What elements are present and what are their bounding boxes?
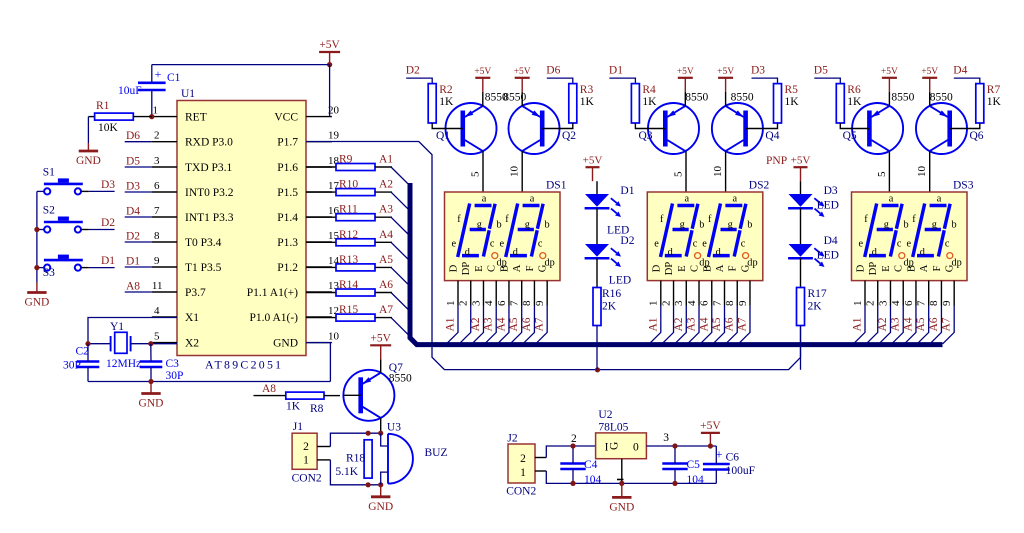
LED D3 xyxy=(789,194,813,207)
svg-text:A5: A5 xyxy=(711,317,723,331)
svg-text:c: c xyxy=(897,238,902,249)
svg-text:8550: 8550 xyxy=(503,92,526,104)
svg-text:A1: A1 xyxy=(852,317,864,331)
svg-text:8: 8 xyxy=(724,300,736,306)
wire D3 to D4 xyxy=(800,208,802,244)
svg-text:A6: A6 xyxy=(724,317,736,331)
svg-text:b: b xyxy=(497,219,502,230)
wire U2 gnd pin xyxy=(621,459,623,484)
svg-text:c: c xyxy=(693,238,698,249)
svg-text:A2: A2 xyxy=(379,179,393,191)
svg-text:T0 P3.4: T0 P3.4 xyxy=(185,237,222,249)
svg-text:9: 9 xyxy=(737,300,749,306)
svg-text:8550: 8550 xyxy=(685,92,708,104)
svg-text:D1: D1 xyxy=(620,185,634,197)
svg-text:+5V: +5V xyxy=(921,67,938,77)
transistor Q1 8550 xyxy=(446,103,497,154)
svg-text:d: d xyxy=(465,247,471,258)
svg-text:g: g xyxy=(477,219,482,230)
svg-text:GND: GND xyxy=(273,338,298,350)
switch S2 xyxy=(44,226,50,232)
LED D2 xyxy=(585,244,609,257)
wire P1.7 pin19 to LED resistors xyxy=(306,142,801,370)
svg-text:8550: 8550 xyxy=(930,92,953,104)
svg-text:b: b xyxy=(904,219,909,230)
svg-text:8550: 8550 xyxy=(731,92,754,104)
resistor R13 with net label A5 xyxy=(306,266,336,268)
svg-text:D2: D2 xyxy=(126,231,140,243)
wire J2 pin2 to U2 input xyxy=(535,457,546,459)
transistor Q7 8550 xyxy=(343,370,394,421)
svg-text:A4: A4 xyxy=(495,317,507,331)
svg-text:b: b xyxy=(699,219,704,230)
svg-text:D: D xyxy=(651,264,662,272)
transistor Q2 8550 xyxy=(509,103,560,154)
capacitor C4 104 xyxy=(560,462,585,465)
wire +5V rail to C1 and VCC xyxy=(152,64,330,66)
svg-text:GND: GND xyxy=(76,155,101,167)
svg-text:D2: D2 xyxy=(101,217,115,229)
svg-text:+: + xyxy=(155,67,162,81)
svg-text:f: f xyxy=(457,214,461,225)
svg-text:C2: C2 xyxy=(76,346,90,358)
wire/net label D3 at switch xyxy=(81,190,89,192)
svg-text:A: A xyxy=(512,264,523,272)
capacitor C6 100uF xyxy=(703,463,730,466)
svg-text:DS3: DS3 xyxy=(953,180,974,192)
svg-text:0: 0 xyxy=(633,442,639,454)
wire crystal ground rail to pin10 xyxy=(88,381,330,383)
svg-text:9: 9 xyxy=(941,300,953,306)
svg-text:3: 3 xyxy=(154,155,160,167)
svg-text:d: d xyxy=(872,247,878,258)
svg-text:c: c xyxy=(538,238,543,249)
svg-text:D: D xyxy=(856,264,867,272)
svg-text:R6: R6 xyxy=(847,84,861,96)
wire R1 to GND xyxy=(87,117,89,143)
svg-text:+5V: +5V xyxy=(583,154,603,166)
svg-text:2: 2 xyxy=(660,301,672,307)
net label D6 at U1 xyxy=(125,141,152,143)
DS1 digit 1 segments xyxy=(458,204,470,258)
ground buzzer xyxy=(380,485,382,497)
DS2 digit 1 segments xyxy=(661,204,673,258)
svg-text:D5: D5 xyxy=(814,65,828,77)
wire D4 to R17 xyxy=(800,258,802,287)
svg-text:R9: R9 xyxy=(339,154,353,166)
svg-text:6: 6 xyxy=(496,300,508,306)
svg-text:X2: X2 xyxy=(185,338,199,350)
wire J2 pin1 to ground rail xyxy=(535,470,546,472)
svg-text:+5V: +5V xyxy=(791,154,811,166)
svg-text:E: E xyxy=(474,265,485,271)
svg-text:R14: R14 xyxy=(339,279,358,291)
junction dot C3 gnd xyxy=(148,379,153,384)
svg-text:C: C xyxy=(690,265,701,272)
svg-text:2K: 2K xyxy=(808,301,823,313)
capacitor C5 104 xyxy=(662,462,687,465)
svg-text:a: a xyxy=(937,193,942,204)
svg-text:A4: A4 xyxy=(902,317,914,331)
svg-text:2: 2 xyxy=(303,441,309,453)
resistor R3 1K xyxy=(569,84,577,123)
svg-text:R4: R4 xyxy=(642,84,656,96)
svg-text:A7: A7 xyxy=(534,317,546,331)
transistor Q4 8550 xyxy=(712,103,763,154)
wire J1 pin1 to bottom rail xyxy=(317,459,330,461)
svg-text:+: + xyxy=(715,448,722,462)
svg-text:1K: 1K xyxy=(642,96,657,108)
svg-text:D3: D3 xyxy=(126,181,140,193)
svg-text:R17: R17 xyxy=(808,288,827,300)
svg-text:X1: X1 xyxy=(185,312,199,324)
svg-text:D4: D4 xyxy=(824,235,838,247)
svg-text:30P: 30P xyxy=(63,360,81,372)
svg-text:P3.7: P3.7 xyxy=(185,287,206,299)
junction dot +5V/VCC xyxy=(327,62,332,67)
svg-text:Y1: Y1 xyxy=(110,321,124,333)
svg-text:J2: J2 xyxy=(507,433,517,445)
svg-text:D: D xyxy=(449,264,460,272)
svg-text:U2: U2 xyxy=(598,409,612,421)
svg-text:P1.1 A1(+): P1.1 A1(+) xyxy=(247,287,298,299)
bus vertical and horizontal xyxy=(410,183,943,345)
svg-text:D6: D6 xyxy=(546,65,560,77)
svg-text:Q5: Q5 xyxy=(843,130,857,142)
svg-text:a: a xyxy=(482,193,487,204)
svg-text:B: B xyxy=(702,265,713,272)
ground U2 xyxy=(621,483,623,497)
svg-text:8: 8 xyxy=(154,230,160,242)
svg-text:7: 7 xyxy=(916,300,928,306)
svg-text:7: 7 xyxy=(509,300,521,306)
svg-text:P1.3: P1.3 xyxy=(277,237,298,249)
svg-text:+5V: +5V xyxy=(319,39,340,51)
svg-text:f: f xyxy=(505,214,509,225)
svg-text:10: 10 xyxy=(328,331,340,343)
svg-text:A7: A7 xyxy=(736,317,748,331)
net label D2 at U1 xyxy=(125,241,152,243)
svg-text:A1: A1 xyxy=(379,154,393,166)
DS1 digit 2 segments xyxy=(506,204,518,258)
svg-text:D4: D4 xyxy=(126,206,140,218)
svg-text:g: g xyxy=(932,219,937,230)
svg-text:J1: J1 xyxy=(293,421,303,433)
svg-text:LED: LED xyxy=(609,275,631,287)
junction dots R18 xyxy=(366,431,371,436)
svg-text:+5V: +5V xyxy=(474,67,491,77)
svg-text:8550: 8550 xyxy=(389,373,412,385)
svg-text:AT89C2051: AT89C2051 xyxy=(205,358,283,372)
svg-text:c: c xyxy=(490,238,495,249)
svg-text:3: 3 xyxy=(663,432,669,444)
svg-text:1: 1 xyxy=(852,301,864,307)
svg-text:a: a xyxy=(889,193,894,204)
svg-text:A3: A3 xyxy=(686,317,698,331)
LED D1 xyxy=(585,194,609,207)
resistor R8 1K xyxy=(286,392,324,399)
svg-text:f: f xyxy=(708,214,712,225)
wire collector pin 5 to display xyxy=(888,151,890,196)
svg-text:R7: R7 xyxy=(987,84,1001,96)
wire D2 to R16 xyxy=(596,258,598,287)
svg-text:R18: R18 xyxy=(346,453,365,465)
wire buzzer leads xyxy=(381,433,388,446)
resistor R18 5.1K xyxy=(364,440,372,478)
svg-text:4: 4 xyxy=(686,300,698,306)
svg-text:A3: A3 xyxy=(483,317,495,331)
svg-text:C: C xyxy=(894,265,905,272)
svg-text:G: G xyxy=(609,442,621,450)
resistor R4 1K xyxy=(631,84,639,123)
svg-text:RET: RET xyxy=(185,112,207,124)
svg-text:D3: D3 xyxy=(824,185,838,197)
svg-text:d: d xyxy=(513,247,519,258)
svg-text:DS1: DS1 xyxy=(546,180,567,192)
junction dot RET node xyxy=(149,114,154,119)
capacitor C1 10uF xyxy=(138,82,166,85)
svg-text:78L05: 78L05 xyxy=(598,421,628,433)
svg-text:4: 4 xyxy=(154,305,160,317)
U1 left pins with numbers xyxy=(152,116,177,118)
svg-text:BUZ: BUZ xyxy=(425,447,448,459)
svg-text:c: c xyxy=(945,238,950,249)
svg-text:LED: LED xyxy=(817,200,839,212)
svg-text:1K: 1K xyxy=(580,96,595,108)
svg-text:8: 8 xyxy=(928,300,940,306)
svg-text:f: f xyxy=(864,214,868,225)
svg-text:B: B xyxy=(499,265,510,272)
svg-text:104: 104 xyxy=(584,474,602,486)
svg-text:9: 9 xyxy=(534,300,546,306)
svg-text:12MHz: 12MHz xyxy=(106,358,141,370)
svg-text:C1: C1 xyxy=(167,72,181,84)
svg-text:INT0 P3.2: INT0 P3.2 xyxy=(185,187,234,199)
svg-text:5: 5 xyxy=(154,331,160,343)
LED D4 xyxy=(789,244,813,257)
svg-text:1K: 1K xyxy=(847,96,862,108)
svg-text:A7: A7 xyxy=(941,317,953,331)
svg-text:LED: LED xyxy=(817,250,839,262)
svg-text:D1: D1 xyxy=(609,65,623,77)
svg-text:e: e xyxy=(702,238,707,249)
switch S1 xyxy=(44,188,50,194)
svg-text:D1: D1 xyxy=(101,255,115,267)
svg-text:R13: R13 xyxy=(339,254,358,266)
svg-text:6: 6 xyxy=(154,180,160,192)
svg-text:E: E xyxy=(881,265,892,271)
svg-text:8550: 8550 xyxy=(891,92,914,104)
svg-text:10: 10 xyxy=(509,166,521,178)
svg-text:b: b xyxy=(952,219,957,230)
svg-text:R1: R1 xyxy=(96,100,110,112)
svg-text:2K: 2K xyxy=(602,301,617,313)
svg-text:INT1 P3.3: INT1 P3.3 xyxy=(185,212,234,224)
junction dot X2/C3 xyxy=(148,341,153,346)
svg-text:CON2: CON2 xyxy=(506,486,536,498)
svg-text:A4: A4 xyxy=(698,317,710,331)
svg-text:1: 1 xyxy=(445,301,457,307)
svg-text:Q6: Q6 xyxy=(970,130,984,142)
svg-text:7: 7 xyxy=(711,300,723,306)
svg-text:Q4: Q4 xyxy=(765,130,779,142)
svg-text:6: 6 xyxy=(699,300,711,306)
svg-text:3: 3 xyxy=(673,300,685,306)
resistor R9 with net label A1 xyxy=(306,166,336,168)
DS2 digit 2 segments xyxy=(709,204,721,258)
svg-text:d: d xyxy=(920,247,926,258)
svg-text:A2: A2 xyxy=(877,317,889,331)
crystal Y1 12MHz xyxy=(115,332,127,353)
svg-text:D5: D5 xyxy=(126,156,140,168)
wire X2 net xyxy=(131,343,177,345)
svg-text:GND: GND xyxy=(368,501,393,513)
svg-text:D2: D2 xyxy=(406,65,420,77)
wire collector pin 5 to display xyxy=(482,151,484,196)
wire collector pin 10 to display xyxy=(929,151,931,196)
svg-text:E: E xyxy=(677,265,688,271)
DS3 digit 2 segments xyxy=(913,204,925,258)
svg-text:A5: A5 xyxy=(915,317,927,331)
resistor R1 10K xyxy=(88,116,94,118)
wire collector pin 5 to display xyxy=(685,151,687,196)
svg-text:10K: 10K xyxy=(98,122,119,134)
svg-text:2: 2 xyxy=(865,301,877,307)
svg-text:19: 19 xyxy=(328,130,340,142)
capacitor C2 30P xyxy=(77,360,100,363)
ground crystal xyxy=(150,382,152,394)
svg-text:A6: A6 xyxy=(928,317,940,331)
svg-text:2: 2 xyxy=(571,433,577,445)
svg-text:+5V: +5V xyxy=(677,67,694,77)
wire X1 net xyxy=(88,318,177,344)
svg-text:R2: R2 xyxy=(439,84,453,96)
svg-text:1: 1 xyxy=(520,467,526,479)
svg-text:4: 4 xyxy=(890,300,902,306)
svg-text:GND: GND xyxy=(139,398,164,410)
IC U1 AT89C2051 body xyxy=(177,101,306,356)
svg-text:8: 8 xyxy=(521,300,533,306)
svg-text:A7: A7 xyxy=(379,304,393,316)
resistor R10 with net label A2 xyxy=(306,191,336,193)
svg-text:U1: U1 xyxy=(181,88,195,100)
svg-text:P1.5: P1.5 xyxy=(277,187,298,199)
svg-text:a: a xyxy=(685,193,690,204)
svg-text:PNP: PNP xyxy=(766,155,787,167)
svg-text:T1 P3.5: T1 P3.5 xyxy=(185,262,222,274)
svg-text:VCC: VCC xyxy=(274,112,298,124)
svg-text:A: A xyxy=(715,264,726,272)
svg-text:A2: A2 xyxy=(673,317,685,331)
capacitor C3 30P xyxy=(140,360,163,363)
svg-text:g: g xyxy=(884,219,889,230)
svg-text:R16: R16 xyxy=(602,288,621,300)
svg-text:R10: R10 xyxy=(339,179,358,191)
U1 right pins with numbers xyxy=(306,116,332,118)
wire collector pin 10 to display xyxy=(725,151,727,196)
svg-text:9: 9 xyxy=(154,255,160,267)
connector J2 CON2 xyxy=(508,444,535,483)
svg-text:DS2: DS2 xyxy=(749,180,770,192)
wire D1 to D2 xyxy=(596,208,598,244)
svg-text:RXD P3.0: RXD P3.0 xyxy=(185,137,233,149)
svg-text:+5V: +5V xyxy=(514,67,531,77)
svg-text:d: d xyxy=(716,247,722,258)
svg-text:F: F xyxy=(525,265,536,271)
svg-text:e: e xyxy=(500,238,505,249)
transistor Q6 8550 xyxy=(916,103,967,154)
resistor R6 1K xyxy=(836,84,844,123)
svg-text:A5: A5 xyxy=(379,254,393,266)
svg-text:6: 6 xyxy=(903,300,915,306)
svg-text:D2: D2 xyxy=(620,235,634,247)
svg-text:b: b xyxy=(545,219,550,230)
svg-text:1: 1 xyxy=(303,455,309,467)
svg-text:F: F xyxy=(932,265,943,271)
resistor R16 2K xyxy=(593,288,601,326)
svg-text:3: 3 xyxy=(877,300,889,306)
resistor R12 with net label A4 xyxy=(306,241,336,243)
regulator U2 78L05 xyxy=(596,433,647,459)
switch S3 xyxy=(44,265,50,271)
net label D3 at U1 xyxy=(125,191,152,193)
svg-text:R3: R3 xyxy=(580,84,594,96)
svg-text:5: 5 xyxy=(470,171,482,177)
svg-text:10: 10 xyxy=(712,166,724,178)
transistor Q5 8550 xyxy=(852,103,903,154)
svg-text:G: G xyxy=(538,264,549,272)
svg-text:2: 2 xyxy=(154,130,160,142)
svg-text:D6: D6 xyxy=(126,130,140,142)
svg-text:U3: U3 xyxy=(387,422,401,434)
svg-text:b: b xyxy=(747,219,752,230)
svg-text:C: C xyxy=(487,265,498,272)
svg-text:R11: R11 xyxy=(339,204,358,216)
svg-text:5: 5 xyxy=(673,171,685,177)
DS3 digit 1 segments xyxy=(865,204,877,258)
wire Q7 collector to buzzer node xyxy=(380,418,382,433)
svg-text:Q1: Q1 xyxy=(436,130,450,142)
resistor R14 with net label A6 xyxy=(306,292,336,294)
svg-text:A8: A8 xyxy=(126,281,140,293)
net label D4 at U1 xyxy=(125,216,152,218)
svg-text:10uF: 10uF xyxy=(118,85,142,97)
net label D5 at U1 xyxy=(125,166,152,168)
svg-text:e: e xyxy=(654,238,659,249)
junction dot R16 bottom xyxy=(595,367,600,372)
net label D1 at U1 xyxy=(125,266,152,268)
svg-text:R8: R8 xyxy=(310,403,324,415)
svg-text:P1.6: P1.6 xyxy=(277,162,298,174)
ground switches xyxy=(36,282,38,293)
svg-text:CON2: CON2 xyxy=(292,473,322,485)
svg-text:+5V: +5V xyxy=(370,333,391,345)
svg-text:1K: 1K xyxy=(439,96,454,108)
svg-text:GND: GND xyxy=(24,297,49,309)
svg-text:5: 5 xyxy=(876,171,888,177)
svg-text:3: 3 xyxy=(470,300,482,306)
wire J1 pin2 to R18 top rail xyxy=(317,446,330,448)
svg-text:D3: D3 xyxy=(101,179,115,191)
svg-text:+5V: +5V xyxy=(700,420,721,432)
resistor R15 with net label A7 xyxy=(306,317,336,319)
resistor R17 2K xyxy=(797,288,805,326)
display DS2 body xyxy=(647,192,763,281)
svg-text:5.1K: 5.1K xyxy=(335,466,358,478)
svg-text:c: c xyxy=(741,238,746,249)
resistor R7 1K xyxy=(976,84,984,123)
svg-text:C6: C6 xyxy=(726,452,740,464)
